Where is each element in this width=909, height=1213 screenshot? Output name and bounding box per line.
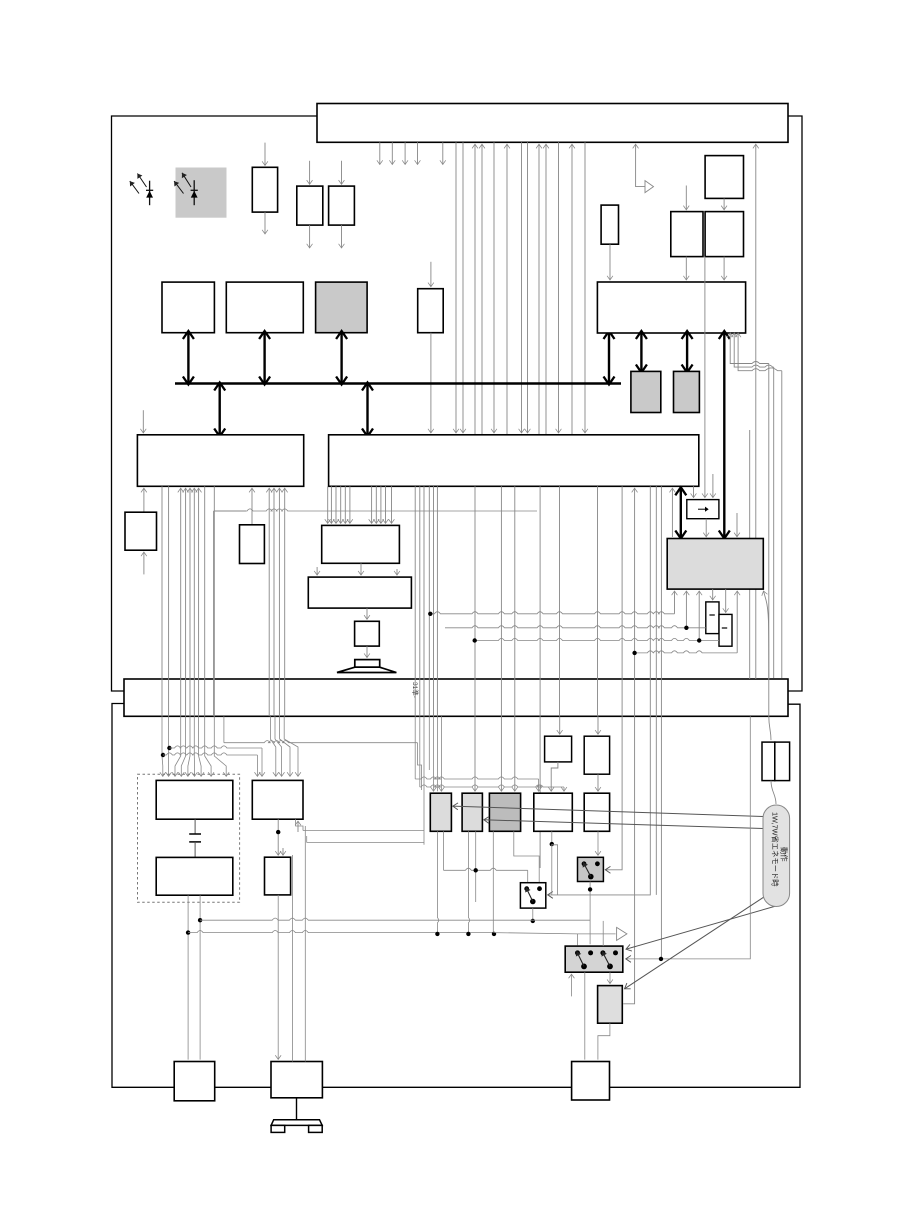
- block P1: [156, 780, 233, 819]
- horizontal rail y755 to Q: [163, 753, 257, 755]
- wire stub below U2: [264, 212, 266, 234]
- stub wires from CN1 bottom: [379, 142, 381, 164]
- wire CN1 right-angle with open arrow: [636, 144, 645, 186]
- cluster verticals into T1: [440, 716, 442, 791]
- wire bundle CN1 to IC F: [455, 142, 457, 433]
- block I amplifier: [308, 577, 411, 608]
- wire S2 to T5: [597, 774, 599, 791]
- IC F big block: [329, 435, 699, 487]
- bus link D to G2 (gray): [686, 332, 688, 373]
- wires below T3: [492, 831, 494, 934]
- wire arrow box to K: [705, 519, 707, 537]
- right margin vertical wires: [768, 364, 770, 590]
- block T1 (light gray): [430, 793, 451, 831]
- power rail wire y920: [199, 895, 201, 1059]
- wire K to minus box V1: [712, 589, 714, 600]
- wire into U4: [341, 161, 343, 185]
- wire D to IC F top: [430, 333, 432, 433]
- diagonal wire pill to W: [626, 906, 776, 949]
- wire long vertical to CN1 (right margin): [755, 144, 757, 679]
- wire strip to S2: [597, 716, 599, 734]
- block J: [355, 621, 380, 646]
- block T2 (light gray): [462, 793, 482, 831]
- wire stub into G3 bottom: [143, 552, 145, 574]
- bus link IC E: [218, 383, 220, 436]
- wire IC F to K top: [671, 488, 673, 537]
- wire J to speaker: [366, 646, 368, 658]
- block T4: [534, 793, 573, 831]
- block A1: [162, 282, 214, 333]
- block M: [240, 525, 265, 564]
- diagonal wire pill to X: [625, 893, 771, 989]
- main data bus: [175, 382, 621, 385]
- horizontal wire y511 with hops: [214, 510, 246, 512]
- wire D2 to IC D: [609, 244, 611, 280]
- block B2: [271, 1062, 322, 1098]
- svg-text:動作: 動作: [780, 847, 789, 862]
- wire U6 to IC D top: [685, 257, 687, 280]
- wire into U6: [685, 186, 687, 210]
- long diagonal wire pill to T2/T3: [484, 820, 763, 829]
- top connector bar CN1: [317, 104, 788, 143]
- wire Q to R with dot: [277, 819, 279, 855]
- block S2: [584, 736, 609, 774]
- pill note 1W/7W eco mode: [763, 805, 790, 907]
- IC E big block: [137, 435, 303, 487]
- ground chassis symbol: [296, 1098, 298, 1120]
- wire S1 to T4: [551, 762, 558, 791]
- bus link A3: [340, 332, 342, 385]
- wire U6/U7 edge down into arrow box top: [704, 257, 706, 498]
- wire H to I: [360, 563, 362, 575]
- wire into switch V from right (via x650): [548, 486, 651, 895]
- block R: [265, 857, 291, 895]
- block B1: [174, 1062, 215, 1101]
- svg-text:1W,7W省エネモード時: 1W,7W省エネモード時: [771, 812, 780, 887]
- block D small: [418, 289, 444, 333]
- bus link IC F: [366, 383, 368, 436]
- horizontal rail y748 to Q: [169, 746, 262, 748]
- wire stub into K top right: [736, 513, 738, 537]
- wire X bottom jog to B3: [598, 1023, 610, 1059]
- wire IC F to arrow box: [693, 486, 695, 497]
- block A3 (gray): [316, 282, 368, 333]
- minus box V2: [719, 614, 732, 646]
- bus link IC D: [608, 332, 610, 385]
- block D2 small above: [601, 205, 618, 244]
- block H: [322, 525, 400, 563]
- wire stub above W right switch: [602, 921, 604, 946]
- wire into D: [430, 262, 432, 287]
- switch block W (gray): [565, 946, 623, 972]
- bus link A1: [187, 332, 189, 385]
- wire W to X: [609, 972, 611, 983]
- wire U5 to U7: [723, 198, 725, 209]
- wire bundle IC F bottom through strip (mid): [474, 486, 476, 791]
- wire bundle strip to P1: [161, 716, 164, 776]
- block Q: [252, 780, 303, 819]
- wire bundle IC E to lower section (left): [161, 486, 163, 716]
- block U5: [705, 156, 743, 199]
- photo-interrupter block (gray) with LED D2: [176, 168, 227, 218]
- IC D wide block: [597, 282, 745, 333]
- wires IC D bottom hop-turn right: [730, 333, 769, 364]
- block T3 (dark gray): [489, 793, 520, 831]
- wires below T2: [468, 831, 469, 934]
- wire stub below U3: [309, 225, 311, 248]
- wire CN2 to pill: [771, 781, 776, 804]
- wires IC F bottom to S1 S2: [559, 486, 561, 716]
- wire 424 down joins h842: [423, 716, 425, 845]
- switch box V: [520, 883, 545, 908]
- wire bundle strip to Q (s-bends): [270, 716, 275, 776]
- wire K bottom-right to connector boxes below: [764, 591, 769, 679]
- horizontal rail y742 middle run: [223, 716, 225, 742]
- connector pair CN2: [762, 742, 775, 781]
- bold link IC D to PSU block K: [723, 332, 725, 539]
- bold link IC F to K: [680, 488, 682, 538]
- block U7: [705, 212, 743, 257]
- wire I to J: [366, 608, 368, 619]
- bus link A2: [263, 332, 265, 385]
- arrow box (right-arrow symbol): [687, 500, 719, 519]
- horizontal feedback wires under IC F: [430, 612, 674, 614]
- block U2: [252, 167, 277, 212]
- wire into U3: [309, 161, 311, 185]
- block G3: [125, 512, 157, 550]
- capacitor C1: [194, 819, 196, 834]
- wire into I left stub: [316, 567, 318, 575]
- wires into B2: [277, 895, 279, 1060]
- power block K (gray): [667, 539, 763, 590]
- LED D1: [149, 181, 151, 206]
- power rail wire y933: [187, 895, 189, 1059]
- minus box V1: [706, 602, 719, 634]
- wire down into W top from rail: [576, 934, 578, 945]
- wire K to minus box V2: [725, 589, 727, 612]
- dashed enclosure battery: [138, 774, 240, 902]
- bus link D to G1 (gray): [640, 332, 642, 373]
- wire W to B3: [584, 972, 586, 1059]
- frame lower section border: [112, 704, 800, 1088]
- wire F to X box long (x634): [623, 488, 634, 1004]
- wire U7 to IC D top: [723, 257, 725, 280]
- horizontal wire pair to T blocks: [415, 777, 538, 779]
- long diagonal wire pill to T1: [453, 806, 763, 816]
- junction dots left rail: [161, 753, 165, 757]
- wire bundle IC F to H: [327, 486, 329, 523]
- block P2: [156, 857, 233, 895]
- block X (gray): [598, 986, 623, 1024]
- wire M to IC E bottom: [251, 488, 253, 525]
- wires right of Q: [296, 819, 303, 830]
- wire bundle IC E bottom right cluster: [268, 488, 270, 716]
- speaker SP1: [355, 660, 380, 668]
- wire T5 to U switch: [597, 831, 599, 855]
- wire G3 to IC E: [143, 488, 145, 512]
- wire up into Q bottom: [297, 821, 299, 832]
- arrow up into W bottom: [571, 974, 573, 996]
- wire U bottom down to W: [589, 882, 591, 945]
- wire into U2: [264, 143, 266, 166]
- gray block G1: [631, 371, 661, 412]
- wire T4 to V switch: [551, 831, 553, 844]
- wire into IC E top-left: [142, 410, 144, 433]
- horizontal wire y870 into V top: [444, 868, 528, 870]
- wire V bottom to bus line: [532, 908, 534, 920]
- block U4: [329, 186, 355, 225]
- block A2: [226, 282, 303, 333]
- block B3: [572, 1062, 610, 1101]
- wire stub below U4: [341, 225, 343, 248]
- wire strip to S1: [559, 716, 561, 734]
- wire into I right stub: [396, 569, 398, 575]
- block S1: [545, 736, 572, 762]
- block U6: [671, 212, 703, 257]
- switch box U (gray): [578, 857, 604, 881]
- connector strip J1 (horizontal band): [124, 679, 788, 716]
- block U3: [297, 186, 323, 225]
- block T5: [584, 793, 609, 831]
- open arrow right of rail: [617, 927, 627, 940]
- wires up into K bottom: [674, 591, 676, 614]
- wire bundle IC F bottom through strip (left cluster): [414, 486, 416, 716]
- wire right margin into W: [626, 716, 751, 959]
- wires below T1: [437, 831, 438, 934]
- gray block G2: [674, 371, 700, 412]
- frame upper section border: [112, 116, 318, 691]
- wire into switch U from right (via x622): [605, 486, 622, 870]
